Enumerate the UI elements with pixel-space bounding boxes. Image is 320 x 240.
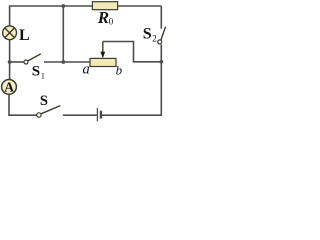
rheostat body (90, 58, 116, 66)
svg-text:A: A (4, 79, 14, 94)
svg-text:R: R (97, 8, 109, 27)
svg-text:b: b (116, 62, 123, 77)
switch S1 branch wire from left rail (10, 61, 24, 63)
wire left rail junction to ammeter (9, 62, 11, 79)
svg-text:0: 0 (109, 17, 114, 27)
wire right rail lower (160, 44, 162, 115)
wire right rail upper (160, 6, 162, 29)
switch S contact circle (37, 113, 41, 117)
wire middle vertical (62, 6, 64, 62)
switch S2 blade (161, 27, 166, 40)
node right rail junction (159, 60, 163, 64)
svg-text:S: S (32, 64, 40, 80)
battery short plate (100, 111, 102, 119)
resistor R0 (92, 2, 117, 10)
switch S blade (41, 106, 60, 114)
wire top rail right segment (118, 5, 162, 7)
wire top rail left segment (10, 6, 93, 26)
svg-text:S: S (143, 26, 152, 43)
wire S1 to rheostat (44, 61, 90, 63)
wire battery to right rail (102, 114, 162, 116)
svg-text:1: 1 (41, 70, 45, 80)
lamp L (3, 26, 17, 40)
wire left rail lamp to junction (9, 40, 11, 62)
wire S to battery (63, 114, 97, 116)
svg-text:a: a (83, 61, 90, 77)
switch S2 contact circle (158, 40, 162, 44)
ammeter A (2, 80, 17, 95)
svg-text:S: S (40, 93, 48, 109)
wire wiper to right rail (103, 42, 162, 62)
battery long plate (96, 108, 98, 121)
node mid-top junction (61, 4, 65, 8)
node left-mid junction (8, 60, 12, 64)
switch S1 blade (28, 54, 41, 61)
svg-text:L: L (19, 27, 30, 44)
node mid-bottom junction (61, 60, 65, 64)
svg-text:2: 2 (152, 34, 157, 44)
rheostat wiper arrow (102, 42, 104, 54)
switch S1 contact circle (24, 60, 28, 64)
wire left rail ammeter to bottom (9, 94, 37, 115)
